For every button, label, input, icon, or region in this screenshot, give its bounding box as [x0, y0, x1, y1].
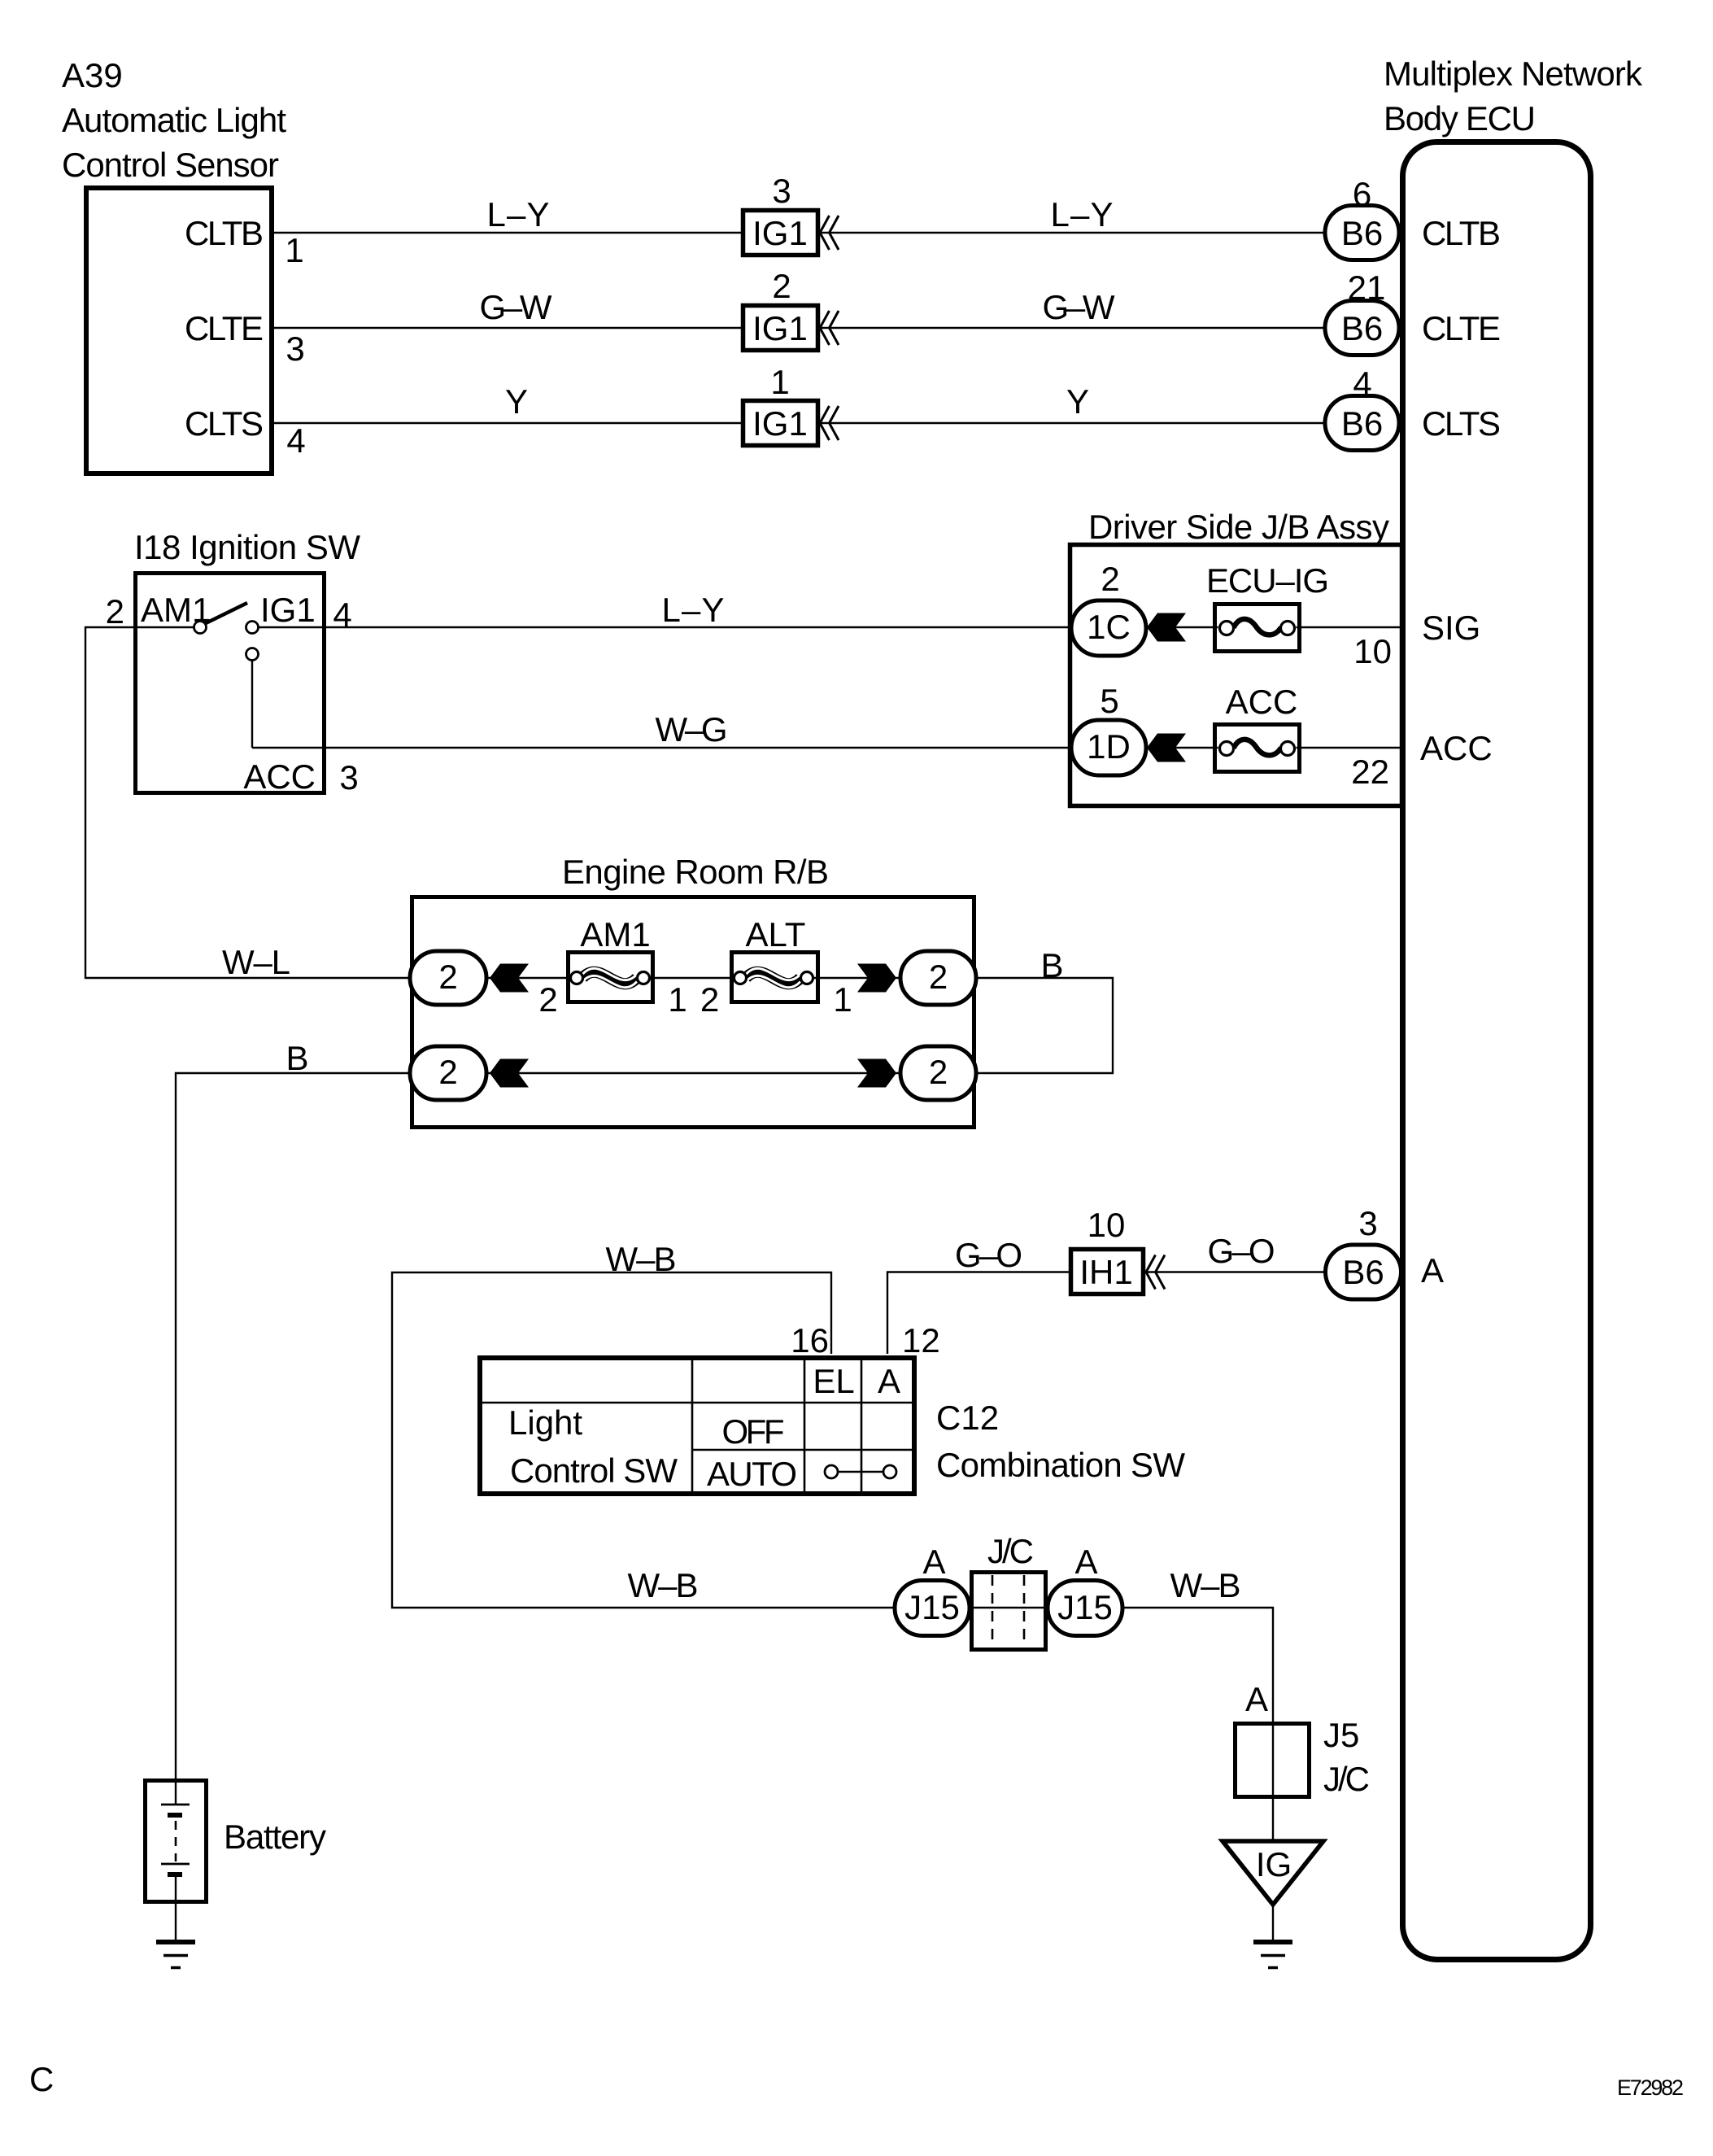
wire W-B (combination SW pin16 loop to J15) — [392, 1272, 895, 1608]
arrow into upper-left 2 — [490, 964, 529, 993]
svg-text:EL: EL — [813, 1362, 854, 1400]
connector IG1 row3 — [743, 401, 839, 446]
value label B right — [1040, 946, 1063, 984]
connector 1C — [1071, 600, 1146, 656]
svg-text:ALT: ALT — [746, 915, 806, 954]
svg-text:A: A — [1074, 1543, 1097, 1581]
wire B loop (AM1/ALT fuse row to lower row inside Engine Room R/B) — [486, 978, 1113, 1073]
svg-text:G–O: G–O — [955, 1236, 1022, 1274]
svg-text:Automatic Light: Automatic Light — [62, 101, 286, 139]
label C12 Combination SW — [936, 1399, 1185, 1484]
svg-text:IG1: IG1 — [752, 214, 808, 252]
svg-text:2: 2 — [929, 1053, 948, 1091]
value label G-W wire row2 left — [480, 288, 552, 326]
connector 2 lower-right — [900, 1046, 976, 1100]
svg-text:Battery: Battery — [224, 1818, 326, 1856]
svg-text:B6: B6 — [1341, 309, 1383, 347]
svg-text:B: B — [1040, 946, 1063, 984]
component Engine Room R/B box — [412, 897, 974, 1128]
svg-text:16: 16 — [791, 1321, 829, 1360]
component A39 Automatic Light Control Sensor box — [86, 188, 272, 474]
svg-text:3: 3 — [1358, 1204, 1377, 1242]
label Driver Side J/B Assy — [1088, 508, 1389, 546]
pin 2 of ignition SW — [106, 592, 124, 631]
wire W-L (ignition AM1 pin2 down to Engine Room R/B) — [85, 627, 410, 978]
svg-text:A: A — [1245, 1680, 1268, 1718]
svg-text:2: 2 — [438, 958, 457, 996]
svg-text:L–Y: L–Y — [662, 591, 725, 629]
arrow out lower-right 2 — [857, 1059, 896, 1088]
svg-text:3: 3 — [772, 172, 791, 210]
svg-text:CLTS: CLTS — [1422, 404, 1501, 443]
ground below battery — [156, 1942, 195, 1968]
fuse ECU-IG — [1213, 604, 1301, 652]
pin 2 of AM1 fuse — [538, 980, 557, 1019]
svg-text:1: 1 — [285, 231, 303, 269]
svg-text:10: 10 — [1088, 1206, 1126, 1244]
svg-text:C12: C12 — [936, 1399, 999, 1437]
value label W-B lower right — [1170, 1566, 1241, 1604]
label IG1 contact — [260, 591, 316, 629]
switch contacts AUTO row — [825, 1465, 896, 1478]
pin 10 above IH1 — [1088, 1206, 1126, 1244]
pin 4 above B6 — [1353, 364, 1371, 403]
svg-text:J5: J5 — [1323, 1716, 1359, 1754]
svg-text:5: 5 — [1100, 682, 1118, 720]
pin 12 of combination SW — [902, 1321, 940, 1360]
value label Y wire row3 left — [505, 382, 528, 421]
component Multiplex Network Body ECU box — [1403, 142, 1591, 1960]
pin CLTB of A39 — [185, 214, 264, 252]
wire CLTS Y (sensor pin4 to ECU B6-4) — [272, 422, 1363, 424]
arrow into 1C — [1147, 613, 1186, 642]
connector IG1 row1 — [743, 211, 839, 255]
power symbol IG triangle — [1223, 1841, 1323, 1905]
contact IG1 — [246, 622, 259, 634]
connector B6 pin6 CLTB — [1325, 206, 1399, 260]
label Engine Room R/B — [562, 853, 829, 891]
svg-text:1: 1 — [668, 980, 687, 1019]
svg-text:IG1: IG1 — [260, 591, 316, 629]
junction J5 box — [1236, 1724, 1310, 1797]
value label W-G (ignition to J/B) — [656, 710, 728, 748]
svg-text:2: 2 — [700, 980, 719, 1019]
svg-text:A: A — [878, 1362, 900, 1400]
svg-text:AUTO: AUTO — [707, 1455, 797, 1493]
connector IH1 — [1071, 1250, 1166, 1294]
svg-text:W–B: W–B — [628, 1566, 699, 1604]
switch lever — [203, 603, 247, 625]
wire CLTE G-W (sensor pin3 to ECU B6-21) — [272, 327, 1363, 329]
label Multiplex Network Body ECU — [1384, 55, 1643, 137]
svg-text:SIG: SIG — [1422, 609, 1480, 647]
svg-text:I18 Ignition SW: I18 Ignition SW — [134, 528, 360, 566]
svg-text:IG: IG — [1256, 1845, 1292, 1883]
connector 2 lower-left — [410, 1046, 486, 1100]
node EL — [813, 1362, 854, 1400]
svg-text:G–W: G–W — [480, 288, 552, 326]
svg-text:2: 2 — [772, 267, 791, 305]
svg-text:J15: J15 — [1057, 1588, 1113, 1626]
svg-text:IG1: IG1 — [752, 309, 808, 347]
svg-text:4: 4 — [333, 596, 351, 634]
wire L-Y SIG (ignition IG1 pin4 to ECU pin10 via ECU-IG fuse) — [258, 626, 1401, 628]
svg-text:ACC: ACC — [243, 757, 316, 796]
label C page marker — [29, 2060, 54, 2098]
svg-text:A: A — [1421, 1251, 1444, 1290]
node SIG of ECU — [1422, 609, 1480, 647]
svg-text:Multiplex Network: Multiplex Network — [1384, 55, 1643, 93]
fuse AM1 — [566, 953, 655, 1002]
value label B left — [285, 1039, 308, 1077]
svg-text:OFF: OFF — [722, 1412, 785, 1451]
value label ALT — [746, 915, 806, 954]
connector IG1 row2 — [743, 306, 839, 351]
svg-text:G–W: G–W — [1043, 288, 1115, 326]
component Driver Side J/B box — [1070, 545, 1402, 806]
wire W-B (J15 to J5 junction) — [1122, 1608, 1273, 1841]
pin 16 of combination SW — [791, 1321, 829, 1360]
component Battery — [146, 1781, 207, 1902]
pin 1 of ALT fuse — [833, 980, 852, 1019]
pin CLTE of A39 — [185, 309, 264, 347]
ground below IG — [1253, 1942, 1292, 1968]
node A of ECU — [1421, 1251, 1444, 1290]
label AUTO position — [707, 1455, 797, 1493]
pin 2 above 1C — [1101, 560, 1119, 598]
connector B6 pin21 CLTE — [1325, 301, 1399, 356]
svg-text:6: 6 — [1353, 175, 1371, 213]
value label G-O right — [1208, 1232, 1275, 1270]
label ACC pin of ignition SW — [243, 757, 316, 796]
svg-text:Engine Room R/B: Engine Room R/B — [562, 853, 829, 891]
value label AM1 — [580, 915, 650, 954]
wire W-G ACC (ignition ACC pin3 to ECU pin22 via ACC fuse) — [252, 660, 1401, 748]
pin A above left J15 — [922, 1543, 945, 1581]
svg-text:B: B — [285, 1039, 308, 1077]
pin 22 of ECU — [1351, 753, 1389, 791]
label J/C above junction box — [987, 1532, 1034, 1570]
svg-text:3: 3 — [339, 758, 358, 796]
svg-text:1: 1 — [833, 980, 852, 1019]
contact ACC — [246, 648, 259, 661]
svg-text:Y: Y — [1066, 382, 1089, 421]
pin 1 above IG1 row3 — [770, 363, 789, 401]
pin A above J5 — [1245, 1680, 1268, 1718]
svg-text:B6: B6 — [1341, 404, 1383, 443]
svg-text:A: A — [922, 1543, 945, 1581]
value label W-L — [222, 943, 290, 981]
value label ACC fuse — [1226, 683, 1298, 721]
svg-text:4: 4 — [1353, 364, 1371, 403]
svg-text:2: 2 — [929, 958, 948, 996]
connector B6 pin3 A — [1326, 1245, 1401, 1299]
svg-text:ECU–IG: ECU–IG — [1206, 561, 1329, 600]
pin 21 above B6 — [1348, 268, 1386, 307]
pin 3 of ignition SW — [339, 758, 358, 796]
svg-text:Control Sensor: Control Sensor — [62, 146, 279, 184]
node A — [878, 1362, 900, 1400]
pin 1 of A39 — [285, 231, 303, 269]
svg-text:W–L: W–L — [222, 943, 290, 981]
pin 3 above B6 — [1358, 1204, 1377, 1242]
connector 2 upper-right — [900, 951, 976, 1005]
arrow into lower-left 2 — [490, 1059, 529, 1088]
svg-text:CLTB: CLTB — [185, 214, 264, 252]
connector J15 left — [895, 1581, 970, 1636]
node CLTS of ECU — [1422, 404, 1501, 443]
value label W-B lower left — [628, 1566, 699, 1604]
label Light Control SW — [508, 1403, 678, 1490]
value label L-Y (ignition to J/B) — [662, 591, 725, 629]
junction block J/C between J15 connectors — [970, 1573, 1048, 1650]
svg-text:IH1: IH1 — [1079, 1253, 1132, 1291]
value label Y wire row3 right — [1066, 382, 1089, 421]
label J5 J/C — [1323, 1716, 1370, 1798]
fuse ALT — [730, 953, 820, 1002]
value label G-W wire row2 right — [1043, 288, 1115, 326]
value label W-B top — [606, 1240, 677, 1278]
value label G-O left — [955, 1236, 1022, 1274]
label A39 — [62, 56, 286, 184]
svg-text:CLTS: CLTS — [185, 404, 264, 443]
svg-text:1D: 1D — [1087, 727, 1131, 766]
svg-text:W–B: W–B — [606, 1240, 677, 1278]
svg-text:J15: J15 — [904, 1588, 960, 1626]
arrow out upper-right 2 — [857, 964, 896, 993]
contact AM1 — [194, 622, 207, 634]
svg-text:IG1: IG1 — [752, 404, 808, 443]
label AM1 contact — [141, 591, 211, 629]
svg-text:2: 2 — [106, 592, 124, 631]
pin 3 above IG1 row1 — [772, 172, 791, 210]
svg-text:21: 21 — [1348, 268, 1386, 307]
wire G-O (combination SW pin12 to ECU B6-3 via IH1) — [887, 1272, 1363, 1355]
component I18 ignition switch box — [136, 574, 325, 793]
svg-text:ACC: ACC — [1226, 683, 1298, 721]
svg-text:L–Y: L–Y — [487, 195, 550, 233]
svg-text:B6: B6 — [1342, 1253, 1384, 1291]
value label L-Y wire row1 right — [1051, 195, 1114, 233]
svg-text:Combination SW: Combination SW — [936, 1446, 1185, 1484]
fuse ACC — [1213, 725, 1301, 772]
svg-text:G–O: G–O — [1208, 1232, 1275, 1270]
arrow into 1D — [1147, 734, 1186, 762]
component C12 combination SW table — [480, 1358, 914, 1494]
svg-text:L–Y: L–Y — [1051, 195, 1114, 233]
svg-text:ACC: ACC — [1420, 729, 1493, 767]
pin 2 above IG1 row2 — [772, 267, 791, 305]
label Battery — [224, 1818, 326, 1856]
svg-text:Control SW: Control SW — [510, 1451, 678, 1490]
svg-text:10: 10 — [1353, 632, 1392, 670]
svg-text:1C: 1C — [1087, 608, 1131, 646]
wire B (Engine Room R/B to battery) — [176, 1073, 410, 1804]
svg-text:22: 22 — [1351, 753, 1389, 791]
svg-text:CLTE: CLTE — [1422, 309, 1501, 347]
label OFF position — [722, 1412, 785, 1451]
svg-text:1: 1 — [770, 363, 789, 401]
svg-text:W–G: W–G — [656, 710, 728, 748]
svg-text:CLTB: CLTB — [1422, 214, 1501, 252]
node CLTE of ECU — [1422, 309, 1501, 347]
svg-text:J/C: J/C — [987, 1532, 1034, 1570]
value label ECU-IG — [1206, 561, 1329, 600]
svg-text:12: 12 — [902, 1321, 940, 1360]
wire (IG triangle to ground) — [1272, 1905, 1274, 1942]
svg-text:AM1: AM1 — [580, 915, 650, 954]
label E72982 — [1617, 2075, 1684, 2100]
pin 6 above B6 — [1353, 175, 1371, 213]
wire (battery negative to ground) — [175, 1875, 177, 1942]
svg-text:W–B: W–B — [1170, 1566, 1241, 1604]
connector 1D — [1071, 720, 1146, 775]
pin 10 of ECU — [1353, 632, 1392, 670]
svg-text:A39: A39 — [62, 56, 123, 94]
node ACC of ECU — [1420, 729, 1493, 767]
pin 5 above 1D — [1100, 682, 1118, 720]
connector 2 upper-left — [410, 951, 486, 1005]
pin CLTS of A39 — [185, 404, 264, 443]
svg-text:Light: Light — [508, 1403, 582, 1442]
pin 3 of A39 — [285, 330, 304, 368]
pin 1 of AM1 fuse — [668, 980, 687, 1019]
svg-text:2: 2 — [538, 980, 557, 1019]
connector J15 right — [1048, 1581, 1122, 1636]
svg-text:Driver Side J/B Assy: Driver Side J/B Assy — [1088, 508, 1389, 546]
pin A above right J15 — [1074, 1543, 1097, 1581]
label I18 Ignition SW — [134, 528, 360, 566]
svg-text:C: C — [29, 2060, 54, 2098]
svg-text:J/C: J/C — [1323, 1760, 1370, 1798]
node CLTB of ECU — [1422, 214, 1501, 252]
svg-text:3: 3 — [285, 330, 304, 368]
svg-text:2: 2 — [1101, 560, 1119, 598]
pin 4 of ignition SW — [333, 596, 351, 634]
svg-text:E72982: E72982 — [1617, 2075, 1684, 2100]
connector B6 pin4 CLTS — [1325, 396, 1399, 451]
value label L-Y wire row1 left — [487, 195, 550, 233]
wire CLTB L-Y (sensor pin1 to ECU B6-6) — [272, 232, 1363, 233]
svg-text:CLTE: CLTE — [185, 309, 264, 347]
svg-text:Y: Y — [505, 382, 528, 421]
pin 4 of A39 — [286, 421, 305, 460]
svg-text:B6: B6 — [1341, 214, 1383, 252]
pin 2 of ALT fuse — [700, 980, 719, 1019]
svg-text:Body ECU: Body ECU — [1384, 99, 1536, 137]
svg-text:2: 2 — [438, 1053, 457, 1091]
svg-text:4: 4 — [286, 421, 305, 460]
